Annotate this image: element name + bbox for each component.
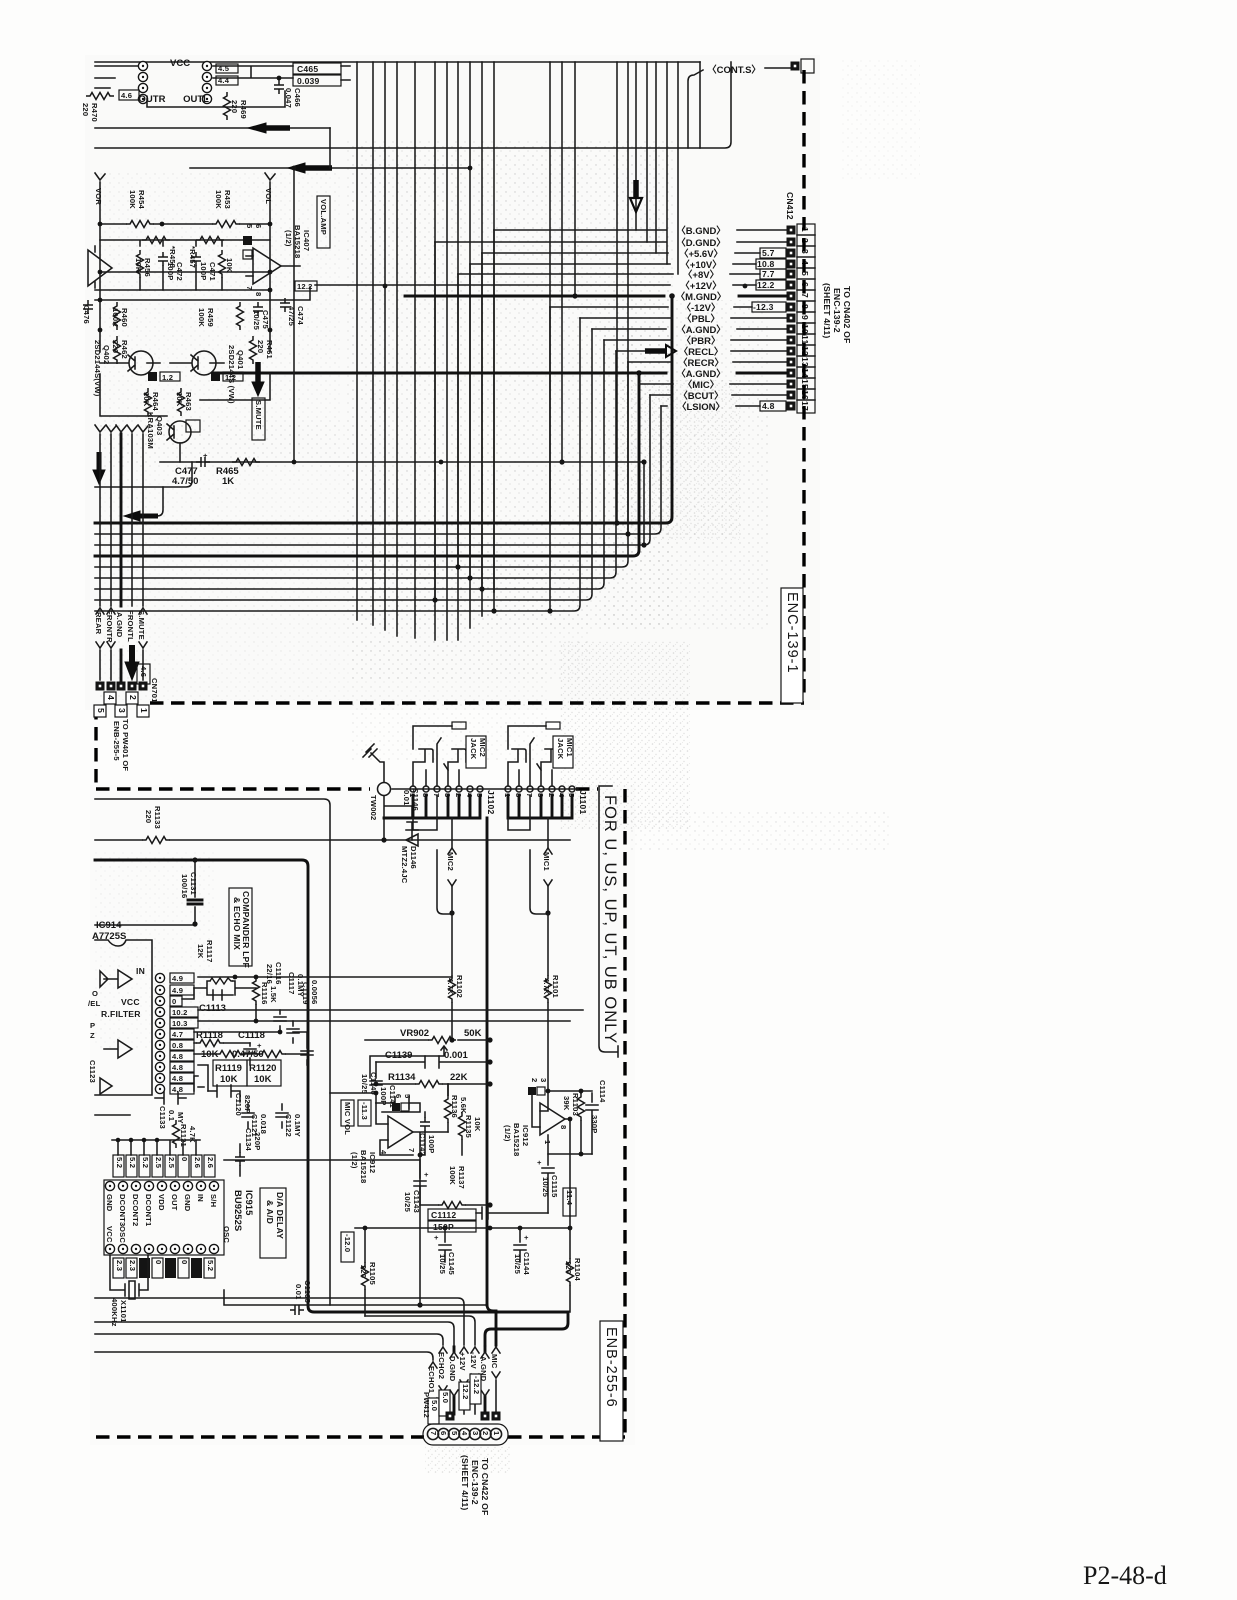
wire: vertical bundle dropping from top rail, bending left into bus	[446, 62, 448, 640]
wire pin3 row	[182, 988, 194, 999]
svg-text:Q402: Q402	[102, 345, 111, 364]
svg-text:2.6: 2.6	[193, 1157, 202, 1168]
resistor/cap C1113 parallel on pin2 row	[194, 981, 256, 1000]
IC915 top pin boxes	[113, 1155, 215, 1177]
svg-text:R1120: R1120	[249, 1063, 276, 1074]
wire pin4 row long	[198, 1009, 583, 1011]
svg-text:VCC: VCC	[105, 1226, 114, 1243]
node VOR break	[95, 173, 105, 224]
capacitor C1122 0.1MY	[276, 1104, 288, 1128]
svg-text:-12.0: -12.0	[343, 1234, 352, 1252]
resistor 10K	[219, 250, 226, 278]
svg-text:J1101: J1101	[578, 790, 588, 814]
wire S.MUTE	[138, 425, 148, 680]
svg-text:(1/2): (1/2)	[350, 1152, 359, 1169]
svg-text:C1131: C1131	[189, 872, 198, 896]
svg-text:5.0: 5.0	[441, 1392, 450, 1403]
resistor R460 100K	[114, 302, 121, 330]
svg-text:DCONT2: DCONT2	[131, 1194, 140, 1226]
svg-text:2.6: 2.6	[206, 1157, 215, 1168]
svg-text:-12V: -12V	[469, 1352, 478, 1370]
svg-text:100K: 100K	[214, 190, 223, 209]
svg-text:2.5: 2.5	[167, 1157, 176, 1169]
svg-text:〈PBR〉: 〈PBR〉	[681, 335, 720, 347]
svg-text:4.9: 4.9	[172, 986, 183, 995]
svg-text:0.0056: 0.0056	[310, 980, 319, 1004]
svg-text:MIC: MIC	[490, 1354, 499, 1369]
voltage box 4.6 on S.MUTE	[137, 664, 150, 684]
svg-text:3: 3	[471, 1431, 480, 1435]
resistor R464 10K	[145, 388, 152, 416]
svg-text:PW412: PW412	[422, 1392, 431, 1418]
label MIC1 JACK	[553, 736, 573, 768]
net RECR	[628, 361, 787, 363]
J1102 switch lever	[437, 738, 448, 786]
net ECHO1	[429, 1362, 437, 1414]
capacitor C1131 100/16	[194, 860, 196, 924]
svg-text:TO CN402 OF: TO CN402 OF	[842, 286, 852, 343]
svg-text:R1104: R1104	[573, 1258, 582, 1282]
svg-text:〈A.GND〉: 〈A.GND〉	[676, 368, 726, 380]
IC pins column (left IC, partial)	[95, 61, 285, 107]
svg-text:6: 6	[439, 1431, 448, 1435]
svg-text:10/25: 10/25	[360, 1074, 369, 1095]
svg-text:R1137: R1137	[457, 1166, 466, 1189]
net PBL	[580, 317, 787, 319]
resistor R469 220	[224, 92, 231, 120]
svg-text:C465: C465	[297, 64, 318, 74]
svg-text:(1/2): (1/2)	[284, 230, 293, 247]
svg-text:1: 1	[139, 708, 149, 713]
svg-text:5.2: 5.2	[206, 1260, 215, 1271]
dashed border top of ENB-255-6	[96, 787, 370, 790]
svg-text:VOL: VOL	[264, 188, 273, 204]
svg-text:REAR: REAR	[94, 612, 103, 635]
bus lines rising to fan at right	[95, 296, 672, 523]
svg-text:0.018: 0.018	[259, 1114, 268, 1134]
svg-text:〈M.GND〉: 〈M.GND〉	[676, 291, 727, 303]
svg-text:4.8: 4.8	[172, 1063, 183, 1072]
wire rail y925	[95, 924, 195, 926]
pin square CONT.S at border	[791, 62, 800, 71]
wire IC914 pin1 row	[198, 976, 452, 978]
net +12V	[315, 284, 756, 286]
svg-text:& ECHO MIX: & ECHO MIX	[232, 897, 242, 950]
capacitor C466 0.047	[274, 80, 284, 94]
svg-text:ECHO2: ECHO2	[437, 1352, 446, 1379]
svg-text:Z: Z	[90, 1031, 95, 1040]
svg-text:4.7/50: 4.7/50	[172, 476, 198, 487]
svg-text:+: +	[257, 1041, 262, 1050]
svg-text:7: 7	[407, 1148, 416, 1152]
svg-text:4.8: 4.8	[172, 1052, 183, 1061]
resistor R1134 22K	[376, 1083, 490, 1085]
svg-text:GND: GND	[105, 1194, 114, 1212]
svg-text:R462: R462	[120, 340, 129, 359]
wire rail y840 with R1133	[95, 839, 570, 841]
svg-text:1K: 1K	[222, 476, 234, 487]
net +10V	[470, 263, 756, 265]
resistor R459 100K	[237, 302, 244, 330]
capacitor C475 10/25	[253, 302, 263, 316]
net MIC	[492, 1347, 500, 1414]
svg-text:1: 1	[492, 1431, 501, 1436]
IC914 pin circles	[155, 973, 164, 1093]
svg-text:5.2: 5.2	[141, 1157, 150, 1168]
J1102 plug contacts above border	[413, 749, 466, 786]
resistor R463 10K	[178, 388, 185, 416]
svg-text:8: 8	[254, 292, 263, 296]
capacitor C1145 10/25	[439, 1228, 451, 1262]
dashed border bottom of ENB-255-6	[96, 1435, 424, 1438]
svg-text:& A/D: & A/D	[265, 1200, 275, 1224]
svg-text:0: 0	[172, 997, 176, 1006]
resistor R1101 4.7K	[545, 975, 552, 1003]
svg-text:R1116: R1116	[260, 982, 269, 1005]
svg-text:R1118: R1118	[196, 1030, 223, 1041]
wire MIC1 down	[544, 818, 552, 913]
svg-text:100P: 100P	[166, 262, 175, 281]
svg-text:100P: 100P	[379, 1087, 388, 1106]
capacitor C1135 0.01	[290, 1305, 304, 1315]
svg-text:R464: R464	[151, 392, 160, 412]
capacitor C1133 0.1 MY	[155, 1092, 186, 1104]
svg-text:220: 220	[111, 340, 120, 353]
svg-text:R1103: R1103	[571, 1093, 580, 1116]
svg-text:IC912: IC912	[368, 1152, 377, 1173]
resistor R1102 4.7K	[449, 975, 456, 1003]
resistors R1119 R1120 10K boxed	[216, 1051, 244, 1058]
capacitor C1114 330P	[586, 1093, 598, 1154]
svg-text:10/25: 10/25	[403, 1192, 412, 1213]
net MIC	[639, 383, 787, 385]
svg-text:ENC-139-2: ENC-139-2	[832, 288, 842, 333]
CN412 pin numbers 1-17	[800, 227, 810, 411]
wire: horizontal y128	[95, 127, 330, 129]
svg-text:C474: C474	[296, 306, 305, 326]
svg-text:R1135: R1135	[464, 1115, 473, 1139]
svg-text:S.MUTE: S.MUTE	[254, 400, 263, 430]
diode D1146 MTZ2.4JC	[406, 830, 418, 846]
wires opamp left	[376, 1084, 462, 1155]
fan-in signal lines and names	[213, 225, 787, 413]
panel label FOR U, US, UP, UT, UB ONLY	[599, 786, 619, 1057]
svg-text:IC912: IC912	[521, 1125, 530, 1146]
resistor R458	[142, 237, 170, 244]
svg-text:+: +	[424, 1170, 429, 1179]
resistor R1116 1.5K	[253, 977, 260, 1005]
svg-text:TW002: TW002	[369, 795, 378, 820]
wire: horizontal y168	[190, 167, 470, 169]
svg-text:〈+5.6V〉: 〈+5.6V〉	[679, 248, 723, 260]
svg-text:DCONT3: DCONT3	[118, 1194, 127, 1226]
svg-text:10K: 10K	[175, 392, 184, 407]
svg-text:C1112: C1112	[431, 1210, 456, 1220]
vertical feed line x294	[293, 168, 295, 462]
svg-text:IC915: IC915	[243, 1190, 254, 1216]
J1102 pin numbers	[408, 793, 484, 798]
svg-text:0.1MY: 0.1MY	[293, 1114, 302, 1137]
IC915 bottom pin circles	[105, 1244, 218, 1253]
svg-text:5: 5	[96, 708, 106, 713]
svg-text:2.5: 2.5	[154, 1157, 163, 1169]
svg-text:C1114: C1114	[598, 1080, 607, 1103]
svg-text:Q403: Q403	[155, 416, 164, 435]
net BCUT	[650, 394, 787, 396]
svg-text:〈LSION〉: 〈LSION〉	[677, 401, 725, 413]
svg-text:〈MIC〉: 〈MIC〉	[683, 379, 719, 391]
svg-text:+: +	[537, 1158, 542, 1167]
capacitor C471 100P	[191, 252, 201, 266]
voltage boxes at CN412	[752, 248, 786, 411]
svg-text:100K: 100K	[448, 1166, 457, 1185]
svg-text:0.001: 0.001	[444, 1050, 468, 1061]
svg-text:2.3: 2.3	[115, 1260, 124, 1271]
svg-text:(SHEET 4/11): (SHEET 4/11)	[822, 283, 832, 338]
svg-text:+: +	[524, 1233, 529, 1242]
crystal X1101 400KHz	[110, 1255, 148, 1299]
IC914 internal buffers	[100, 970, 132, 988]
resistor R453 100K	[162, 223, 270, 225]
wire: left bend y487	[95, 462, 192, 487]
svg-text:R1119: R1119	[215, 1063, 242, 1074]
svg-text:4: 4	[106, 695, 116, 700]
svg-text:/EL: /EL	[88, 999, 101, 1008]
svg-text:〈CONT.S〉: 〈CONT.S〉	[707, 64, 761, 76]
chevron breaks and labels at PW412	[427, 1347, 500, 1414]
wire pin8/9 rows	[194, 1065, 208, 1091]
svg-text:8: 8	[559, 1125, 568, 1129]
svg-text:11.4: 11.4	[565, 1190, 574, 1206]
svg-text:3: 3	[539, 1078, 548, 1082]
svg-text:C1122: C1122	[284, 1114, 293, 1137]
svg-text:5.7: 5.7	[762, 248, 775, 258]
svg-text:7: 7	[800, 293, 810, 298]
wire A.GND	[120, 434, 123, 680]
pin boxes 4.5 4.4	[216, 64, 238, 73]
op-amp (other half) at left edge	[88, 246, 112, 288]
net A.GND	[484, 1347, 487, 1414]
label MIC VOL box (mic volume)	[341, 1100, 354, 1126]
svg-text:100K: 100K	[111, 308, 120, 327]
net A.GND pin14	[213, 372, 787, 375]
svg-text:7: 7	[429, 1431, 438, 1435]
svg-text:GND: GND	[183, 1194, 192, 1212]
svg-text:5: 5	[403, 1094, 412, 1099]
svg-text:39K: 39K	[562, 1096, 571, 1111]
svg-text:4: 4	[460, 1431, 469, 1436]
svg-text:-11.3: -11.3	[360, 1102, 369, 1120]
capacitor C1144 10/25	[514, 1228, 526, 1262]
net PBR	[604, 339, 787, 341]
svg-text:ECHO1: ECHO1	[427, 1366, 436, 1394]
svg-text:4.7: 4.7	[172, 1030, 183, 1039]
node CONT.S	[688, 70, 703, 148]
resistor R470 220	[86, 93, 114, 100]
svg-text:R1136: R1136	[450, 1095, 459, 1118]
svg-text:10K: 10K	[134, 258, 143, 273]
resistor R457	[196, 237, 224, 244]
J1101 tip line	[508, 726, 546, 749]
svg-text:4.9: 4.9	[172, 974, 183, 983]
svg-text:C1133: C1133	[158, 1106, 167, 1129]
svg-text:+12V: +12V	[458, 1352, 467, 1371]
svg-text:C471: C471	[208, 262, 217, 282]
svg-text:1.2: 1.2	[225, 373, 236, 382]
svg-text:-12.3: -12.3	[753, 302, 774, 312]
svg-text:VCC: VCC	[170, 58, 190, 69]
svg-text:C466: C466	[293, 88, 302, 107]
label S.MUTE box with arrow	[255, 362, 261, 382]
svg-text:1.5K: 1.5K	[269, 986, 278, 1003]
jack J1102 pins on border line	[392, 786, 578, 792]
svg-text:2: 2	[128, 695, 138, 700]
wire rail y1115	[95, 1114, 130, 1116]
svg-text:220P: 220P	[253, 1132, 262, 1151]
wire rail ECHO2 y1334	[95, 1334, 443, 1345]
svg-text:4.8: 4.8	[762, 401, 775, 411]
svg-text:R463: R463	[184, 392, 193, 411]
svg-text:A.GND: A.GND	[115, 612, 124, 638]
J1101 plug contacts	[508, 749, 559, 786]
op-amp IC912 (1/2) left	[388, 1116, 413, 1148]
wire REAR	[95, 425, 105, 680]
PW412 pin voltage boxes	[428, 1398, 439, 1424]
svg-text:220: 220	[359, 1265, 368, 1278]
svg-text:MIC2: MIC2	[446, 852, 455, 871]
arrow left on y128 wire	[266, 125, 290, 131]
capacitor C1120 820P	[208, 1085, 240, 1102]
resistor R1118 10K	[194, 1042, 250, 1044]
IC914 pin number boxes	[170, 973, 198, 1094]
resistor R456 10K	[137, 250, 144, 278]
resistor R1104 220	[567, 1258, 574, 1286]
svg-text:〈BCUT〉: 〈BCUT〉	[678, 390, 723, 402]
svg-text:10/25: 10/25	[438, 1254, 447, 1275]
svg-text:C476: C476	[82, 305, 91, 324]
svg-text:C1144: C1144	[522, 1252, 531, 1276]
arrow left on y168 wire	[305, 165, 332, 171]
connector CN412 body	[797, 224, 815, 413]
svg-text:IC407: IC407	[302, 230, 311, 251]
wire rail +12V y1298	[95, 1298, 464, 1345]
net +5.6V	[482, 252, 760, 254]
svg-text:P: P	[90, 1021, 95, 1030]
svg-text:6: 6	[254, 224, 263, 228]
net +8V	[458, 273, 760, 275]
svg-text:+: +	[434, 1233, 439, 1242]
svg-text:D/A DELAY: D/A DELAY	[275, 1192, 285, 1239]
wire FRONTL with arrow	[127, 425, 137, 606]
svg-text:FRONTR: FRONTR	[105, 610, 114, 643]
svg-text:TO PW401 OF: TO PW401 OF	[121, 719, 130, 771]
svg-text:IN: IN	[196, 1194, 205, 1202]
svg-text:〈+12V〉: 〈+12V〉	[680, 280, 721, 292]
svg-text:4.8: 4.8	[172, 1074, 183, 1083]
svg-text:10/25: 10/25	[541, 1177, 550, 1198]
svg-text:0: 0	[154, 1260, 163, 1264]
svg-text:100/16: 100/16	[180, 874, 189, 898]
capacitor C1139 0.001	[376, 1056, 490, 1068]
svg-text:5: 5	[245, 224, 254, 229]
potentiometer VR902 50K	[365, 1039, 490, 1041]
wire x330 to C1140 node	[330, 1092, 376, 1094]
wire: long horizontal C477/R465 net y462	[160, 461, 644, 463]
svg-text:100K: 100K	[197, 308, 206, 327]
wire junction row y272	[100, 224, 270, 300]
svg-text:IC914: IC914	[96, 920, 122, 931]
connector PW412 body	[423, 1424, 508, 1445]
svg-text:4.7K: 4.7K	[446, 978, 455, 995]
resistor R465 1K	[232, 459, 260, 466]
capacitor C476	[83, 300, 93, 314]
svg-text:4.6: 4.6	[139, 666, 148, 677]
svg-text:ENB-255-6: ENB-255-6	[603, 1327, 619, 1408]
svg-text:100P: 100P	[199, 262, 208, 281]
svg-text:BU9252S: BU9252S	[232, 1190, 243, 1231]
svg-text:10K: 10K	[254, 1074, 272, 1085]
wire pin7 row	[194, 1053, 307, 1055]
svg-text:C1145: C1145	[447, 1252, 456, 1276]
svg-text:10.8: 10.8	[757, 259, 775, 269]
svg-text:-12.2: -12.2	[472, 1376, 481, 1394]
node TW002 circle	[378, 783, 391, 796]
op-amp IC912 (1/2) right	[540, 1103, 565, 1135]
svg-text:220: 220	[144, 810, 153, 823]
net +12V	[460, 1347, 468, 1414]
transistor Q403 KRA103M	[169, 421, 191, 443]
svg-text:JACK: JACK	[556, 738, 565, 760]
svg-text:0.1: 0.1	[167, 1110, 176, 1122]
arrow down at left edge	[97, 452, 102, 470]
svg-text:R1102: R1102	[455, 975, 464, 998]
wire rail y860 thick	[95, 860, 568, 1312]
svg-text:C1118: C1118	[238, 1030, 265, 1041]
svg-text:R459: R459	[206, 308, 215, 327]
svg-text:10K: 10K	[225, 258, 234, 273]
capacitor C474 47/25	[280, 298, 290, 312]
svg-text:R453: R453	[223, 190, 232, 209]
svg-text:O: O	[92, 989, 98, 998]
dashed border right of ENB-255-6	[623, 789, 626, 1437]
svg-text:2.3: 2.3	[128, 1260, 137, 1271]
wire rail ECHO1 y1352	[95, 1352, 433, 1360]
svg-text:MIC1: MIC1	[542, 852, 551, 872]
svg-text:6: 6	[394, 1094, 403, 1098]
speckle under connector	[425, 1446, 510, 1474]
resistor R454 100K	[100, 223, 162, 225]
wire MIC corner from thick mid vertical	[487, 1305, 496, 1345]
svg-text:OUTR: OUTR	[139, 94, 166, 105]
svg-text:C1143: C1143	[412, 1190, 421, 1213]
svg-text:+: +	[203, 451, 208, 460]
svg-text:R1133: R1133	[153, 806, 162, 829]
IC914 outline	[95, 940, 152, 1095]
svg-text:OSC: OSC	[222, 1226, 231, 1243]
CN412 pin squares	[787, 226, 796, 411]
ground TW002	[363, 744, 384, 782]
vertical x330	[329, 128, 331, 168]
svg-text:〈A.GND〉: 〈A.GND〉	[676, 324, 726, 336]
svg-text:22K: 22K	[450, 1072, 468, 1083]
svg-text:J1102: J1102	[486, 790, 496, 814]
svg-text:R1117: R1117	[205, 940, 214, 963]
capacitor C1119 0.0056	[293, 1032, 313, 1065]
svg-text:2: 2	[481, 1431, 490, 1435]
svg-text:CN701: CN701	[150, 678, 159, 703]
label D/A DELAY & A/D	[260, 1188, 286, 1258]
capacitor C477 4.7/50	[196, 457, 210, 467]
